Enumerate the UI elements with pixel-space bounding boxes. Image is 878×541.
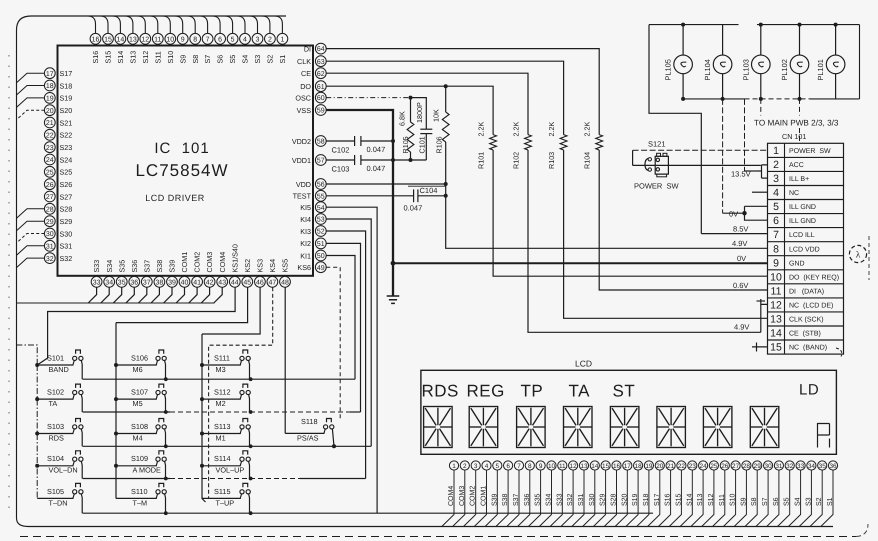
svg-text:VDD2: VDD2 <box>292 137 311 146</box>
svg-text:C101: C101 <box>418 136 427 153</box>
wire/net OSC: pin60 to R105/C101 top <box>326 97 410 99</box>
pin 21 (S21) <box>44 117 55 128</box>
wire <box>648 470 660 526</box>
svg-text:9: 9 <box>773 257 779 269</box>
CN101 bottom-right dashed hook <box>836 348 842 357</box>
wire hook pin 42 <box>201 287 209 303</box>
capacitor C101 1800P <box>411 98 427 130</box>
svg-text:8: 8 <box>193 36 197 43</box>
svg-text:7: 7 <box>773 229 779 241</box>
LCD pin 23 (S14) <box>688 461 697 470</box>
pin 55 (TEST) <box>315 190 326 201</box>
wire/net VSS (thick ground) <box>326 110 393 296</box>
wire: pin48 KS5 down to S118 <box>284 287 286 433</box>
wire hook pin 37 <box>138 287 146 303</box>
svg-text:10K: 10K <box>432 109 441 122</box>
pin 33 (S33) <box>91 276 102 287</box>
LCD pin 14 (S30) <box>590 461 599 470</box>
svg-text:NC: NC <box>789 190 799 197</box>
svg-text:S21: S21 <box>60 118 73 127</box>
wire: thick GND to CN101 pin 9 (0V) <box>393 262 768 264</box>
wire bus under IC bottom <box>17 302 215 304</box>
svg-text:S115: S115 <box>214 487 231 496</box>
LCD pin 24 (S13) <box>699 461 708 470</box>
wire hook pin 35 <box>113 287 121 303</box>
svg-text:S17: S17 <box>654 493 661 506</box>
switch S109 A MODE <box>116 465 157 467</box>
LCD small segment figure (right) <box>818 423 830 448</box>
pin 29 (S29) <box>44 216 55 227</box>
svg-text:VOL–DN: VOL–DN <box>49 466 78 475</box>
svg-text:5: 5 <box>231 36 235 43</box>
svg-text:S33: S33 <box>92 260 101 273</box>
wire <box>799 470 811 526</box>
svg-text:3: 3 <box>773 173 779 185</box>
svg-text:32: 32 <box>786 463 794 470</box>
NC tick pin12 + bracket to pin14 <box>761 299 768 332</box>
svg-text:COM4: COM4 <box>448 486 455 506</box>
LCD 14-segment character 1 <box>424 407 453 448</box>
svg-text:S30: S30 <box>589 493 596 506</box>
wire hook pin 39 <box>164 287 172 303</box>
svg-text:31: 31 <box>46 243 54 250</box>
wire <box>745 470 757 526</box>
svg-text:VDD: VDD <box>296 180 311 189</box>
svg-text:S4: S4 <box>795 497 802 506</box>
switch S104 VOL&#8211;DN <box>37 465 73 467</box>
LCD pin 1 (COM4) <box>449 461 458 470</box>
switch S113 M1 <box>202 433 241 435</box>
svg-text:DI: DI <box>304 44 311 53</box>
svg-text:13.5V: 13.5V <box>731 170 751 179</box>
svg-text:TO MAIN PWB 2/3, 3/3: TO MAIN PWB 2/3, 3/3 <box>754 119 839 128</box>
svg-text:45: 45 <box>243 279 251 286</box>
svg-text:S5: S5 <box>784 497 791 506</box>
svg-text:LCD: LCD <box>575 359 592 369</box>
LCD pin 20 (S17) <box>655 461 664 470</box>
svg-text:S11: S11 <box>719 494 726 506</box>
wire row4 line (partly dashed) <box>83 478 171 480</box>
svg-text:S3: S3 <box>253 55 262 64</box>
svg-text:KS3: KS3 <box>256 259 265 273</box>
svg-text:39: 39 <box>168 279 176 286</box>
pin 1 (S1) <box>277 33 288 44</box>
svg-text:12: 12 <box>141 36 149 43</box>
svg-text:24: 24 <box>700 463 708 470</box>
svg-text:S34: S34 <box>105 260 114 273</box>
svg-text:12: 12 <box>770 300 782 312</box>
off-page connector circled 1 <box>849 245 866 262</box>
LCD pin 7 (S37) <box>514 461 523 470</box>
switch S110 T&#8211;M <box>116 497 157 499</box>
svg-text:S17: S17 <box>60 69 73 78</box>
svg-text:LCD VDD: LCD VDD <box>789 246 820 253</box>
LCD pin 21 (S16) <box>666 461 675 470</box>
svg-text:34: 34 <box>808 463 816 470</box>
svg-text:26: 26 <box>46 182 54 189</box>
svg-text:S35: S35 <box>117 260 126 273</box>
pin 3 (S3) <box>252 33 263 44</box>
LCD pin 29 (S8) <box>753 461 762 470</box>
wire <box>485 470 497 526</box>
wire hook pin 34 <box>101 287 109 303</box>
wire <box>767 470 779 526</box>
LCD pin 5 (S39) <box>493 461 502 470</box>
svg-text:S27: S27 <box>60 192 73 201</box>
svg-text:30: 30 <box>46 231 54 238</box>
LCD pin 16 (S28) <box>612 461 621 470</box>
svg-text:PL102: PL102 <box>780 59 789 80</box>
lamp top bus wire <box>649 24 739 26</box>
svg-text:33: 33 <box>797 463 805 470</box>
LCD pin 34 (S3) <box>807 461 816 470</box>
svg-text:23: 23 <box>46 145 54 152</box>
pin 51 (KI2) <box>315 238 326 249</box>
svg-text:S110: S110 <box>131 487 148 496</box>
wire <box>518 470 530 526</box>
svg-text:R106: R106 <box>435 136 444 153</box>
wire <box>474 470 486 526</box>
resistor R103 2.2K <box>560 135 567 150</box>
switch S118 PS/AS <box>285 432 324 434</box>
svg-text:S23: S23 <box>60 143 73 152</box>
wire: 13.5V feed to pins 2,3 <box>744 99 746 171</box>
wire: 8.5V to CN101 pin 7 LCD ILL <box>701 233 767 235</box>
svg-text:S9: S9 <box>740 497 747 506</box>
svg-text:35: 35 <box>819 463 827 470</box>
wire: S121 to CN101 pin2 ACC <box>633 164 761 166</box>
svg-text:TP: TP <box>521 382 544 401</box>
capacitor C103 0.047 <box>354 155 356 165</box>
switch S103 RDS <box>37 433 73 435</box>
svg-text:S6: S6 <box>773 497 780 506</box>
svg-text:S20: S20 <box>621 493 628 506</box>
wire hook pin 41 <box>189 287 197 303</box>
svg-text:KI5: KI5 <box>300 203 311 212</box>
pin 57 (VDD1) <box>315 155 326 166</box>
svg-text:S15: S15 <box>675 493 682 506</box>
svg-text:LCD ILL: LCD ILL <box>789 232 815 239</box>
svg-text:1: 1 <box>773 145 779 157</box>
svg-text:M2: M2 <box>216 399 226 408</box>
svg-text:33: 33 <box>93 279 101 286</box>
LCD pin 13 (S31) <box>579 461 588 470</box>
svg-text:TEST: TEST <box>293 192 312 201</box>
pin 61 (DO) <box>315 81 326 92</box>
svg-text:6: 6 <box>773 215 779 227</box>
wire/net CLK: pin63 to R103 then CN101 pin 13 <box>326 61 563 134</box>
svg-text:41: 41 <box>193 279 201 286</box>
lamp PL104 <box>722 25 724 55</box>
svg-text:6: 6 <box>218 36 222 43</box>
pin 5 (S5) <box>227 33 238 44</box>
pin 60 (OSC) <box>315 92 326 103</box>
pin 52 (KI3) <box>315 226 326 237</box>
svg-text:S15: S15 <box>104 51 113 64</box>
svg-text:57: 57 <box>317 158 325 165</box>
svg-text:S8: S8 <box>751 497 758 506</box>
LCD pin 22 (S15) <box>677 461 686 470</box>
wire: PL104 drop to ILL GND 0V <box>722 99 724 213</box>
svg-text:10: 10 <box>548 463 556 470</box>
svg-text:ILL GND: ILL GND <box>789 204 816 211</box>
wire <box>669 470 681 526</box>
wire <box>680 470 692 526</box>
svg-text:8: 8 <box>528 463 532 470</box>
wire row3 line <box>83 445 372 447</box>
svg-text:S26: S26 <box>60 180 73 189</box>
wire <box>691 470 703 526</box>
resistor R106 10K <box>445 86 447 112</box>
svg-text:25: 25 <box>710 463 718 470</box>
svg-text:6.8K: 6.8K <box>398 111 407 126</box>
wire: OSC bottom rail to VDD1 line <box>393 159 426 161</box>
svg-text:S113: S113 <box>214 422 231 431</box>
capacitor C102 0.047 <box>354 136 356 146</box>
svg-text:59: 59 <box>317 108 325 115</box>
svg-text:LD: LD <box>799 382 819 399</box>
svg-text:S38: S38 <box>155 260 164 273</box>
pin 47 (KS4) <box>267 276 278 287</box>
svg-text:22: 22 <box>678 463 686 470</box>
wire <box>778 470 790 526</box>
connector CN101 table <box>768 143 844 354</box>
wire/net CE: pin62 to R102 then CN101 pin 14 <box>326 73 528 134</box>
svg-text:S25: S25 <box>60 168 73 177</box>
pin 10 (S10) <box>165 33 176 44</box>
wire <box>723 470 735 526</box>
svg-text:S3: S3 <box>805 497 812 506</box>
svg-text:POWER SW: POWER SW <box>634 182 680 191</box>
pin 43 (COM4) <box>217 276 228 287</box>
wire <box>539 470 551 526</box>
junction col2 row2 <box>164 410 168 414</box>
wire: PL102 drop to CN101 top <box>799 99 801 116</box>
wire <box>604 470 616 526</box>
svg-text:S37: S37 <box>513 493 520 506</box>
LCD pin 36 (S1) <box>828 461 837 470</box>
svg-text:ACC: ACC <box>789 162 804 169</box>
junction col2 row3 <box>164 444 168 448</box>
svg-text:C103: C103 <box>332 165 350 174</box>
wire: S121 to CN101 pin1 (dashed) <box>633 149 768 151</box>
svg-text:47: 47 <box>269 279 277 286</box>
svg-text:21: 21 <box>46 120 54 127</box>
LCD 14-segment character 3 <box>517 407 546 448</box>
svg-text:54: 54 <box>317 205 325 212</box>
pin 62 (CE) <box>315 68 326 79</box>
svg-text:COM3: COM3 <box>205 252 214 273</box>
wire <box>507 470 519 526</box>
svg-text:16: 16 <box>613 463 621 470</box>
LCD pin 3 (COM2) <box>471 461 480 470</box>
pin 2 (S2) <box>265 33 276 44</box>
svg-text:CN 101: CN 101 <box>782 132 806 141</box>
LCD 14-segment character 7 <box>703 407 732 448</box>
svg-text:5: 5 <box>496 463 500 470</box>
junction col2 row5 <box>164 511 168 515</box>
svg-text:9: 9 <box>539 463 543 470</box>
wire <box>593 470 605 526</box>
svg-text:S16: S16 <box>665 493 672 506</box>
svg-text:1: 1 <box>452 463 456 470</box>
svg-text:λ: λ <box>856 250 861 260</box>
switch S111 M3 <box>202 364 241 366</box>
svg-text:KS6: KS6 <box>297 263 311 272</box>
svg-text:S10: S10 <box>166 51 175 64</box>
svg-text:S11: S11 <box>153 51 162 63</box>
pin 31 (S31) <box>44 240 55 251</box>
wire column3 bus <box>202 334 206 502</box>
svg-text:C104: C104 <box>420 186 438 195</box>
svg-text:0V: 0V <box>737 254 746 263</box>
svg-text:62: 62 <box>317 71 325 78</box>
pin 17 (S17) <box>44 68 55 79</box>
svg-text:A MODE: A MODE <box>133 466 162 475</box>
svg-text:S33: S33 <box>556 493 563 506</box>
svg-text:COM1: COM1 <box>180 252 189 273</box>
resistor R105 6.8K <box>410 98 412 122</box>
svg-text:0.047: 0.047 <box>367 145 386 154</box>
svg-text:13: 13 <box>580 463 588 470</box>
switch S108 M4 <box>116 433 157 435</box>
LCD pin 35 (S2) <box>818 461 827 470</box>
svg-text:S37: S37 <box>142 260 151 273</box>
svg-text:TA: TA <box>569 382 591 401</box>
svg-text:COM2: COM2 <box>470 486 477 506</box>
svg-text:19: 19 <box>46 96 54 103</box>
LCD pin 19 (S18) <box>644 461 653 470</box>
svg-text:2.2K: 2.2K <box>477 122 486 137</box>
LCD pin 27 (S10) <box>731 461 740 470</box>
wire: pin47 KS4 (dashed) to aux column <box>209 287 273 498</box>
svg-text:36: 36 <box>130 279 138 286</box>
svg-text:S2: S2 <box>816 497 823 506</box>
LCD pin 12 (S32) <box>569 461 578 470</box>
pin 14 (S14) <box>115 33 126 44</box>
svg-text:S12: S12 <box>708 493 715 506</box>
svg-text:40: 40 <box>181 279 189 286</box>
svg-text:8: 8 <box>773 243 779 255</box>
wire KI2 to key matrix row <box>326 243 360 412</box>
svg-text:2.2K: 2.2K <box>512 122 521 137</box>
pin 46 (KS3) <box>255 276 266 287</box>
LCD pin 32 (S5) <box>785 461 794 470</box>
wire <box>626 470 638 526</box>
svg-text:2: 2 <box>268 36 272 43</box>
wire <box>756 470 768 526</box>
pin 11 (S11) <box>152 33 163 44</box>
svg-text:PL101: PL101 <box>816 59 825 80</box>
svg-text:R102: R102 <box>512 152 521 169</box>
lamp PL101 <box>835 25 837 55</box>
svg-text:7: 7 <box>517 463 521 470</box>
pin 39 (S39) <box>167 276 178 287</box>
svg-text:ILL B+: ILL B+ <box>789 176 809 183</box>
wire hook pin 38 <box>151 287 159 303</box>
wire KI4 to key matrix row <box>326 219 371 446</box>
svg-text:4: 4 <box>773 187 779 199</box>
wire row2 line (partly dashed) <box>83 411 171 413</box>
svg-text:55: 55 <box>317 193 325 200</box>
svg-text:T–M: T–M <box>133 498 148 507</box>
pin 59 (VSS) <box>315 105 326 116</box>
svg-text:63: 63 <box>317 59 325 66</box>
capacitor C104 0.047 on TEST line <box>326 195 413 197</box>
svg-text:T–DN: T–DN <box>49 498 68 507</box>
svg-text:S28: S28 <box>611 493 618 506</box>
pin 25 (S25) <box>44 166 55 177</box>
svg-text:M3: M3 <box>216 365 226 374</box>
switch S101 BAND <box>37 364 73 366</box>
svg-text:ST: ST <box>613 382 636 401</box>
svg-text:14: 14 <box>770 328 782 340</box>
svg-text:2.2K: 2.2K <box>547 122 556 137</box>
svg-text:S19: S19 <box>632 493 639 506</box>
svg-text:S13: S13 <box>697 493 704 506</box>
svg-text:TA: TA <box>49 399 58 408</box>
svg-text:18: 18 <box>46 83 54 90</box>
wire <box>464 470 476 526</box>
svg-text:58: 58 <box>317 139 325 146</box>
pin 50 (KI1) <box>315 250 326 261</box>
svg-text:KI4: KI4 <box>300 215 311 224</box>
svg-text:29: 29 <box>46 219 54 226</box>
wire <box>528 470 540 526</box>
LCD pin 30 (S7) <box>764 461 773 470</box>
LCD 14-segment character 4 <box>564 407 593 448</box>
wire hook pin 36 <box>126 287 134 303</box>
svg-text:37: 37 <box>143 279 151 286</box>
wire: top segment bus (IC top pins return) <box>17 16 287 30</box>
svg-text:DO: DO <box>300 82 311 91</box>
pin 41 (COM2) <box>192 276 203 287</box>
switch S107 M5 <box>116 398 157 400</box>
outer dashed page border (faint, partial) <box>8 55 10 515</box>
svg-text:CLK (SCK): CLK (SCK) <box>789 316 824 324</box>
LCD pin 33 (S4) <box>796 461 805 470</box>
svg-text:50: 50 <box>317 253 325 260</box>
svg-text:PL105: PL105 <box>664 59 673 80</box>
svg-text:10: 10 <box>166 36 174 43</box>
junction col3 row2 <box>249 410 253 414</box>
pin 26 (S26) <box>44 179 55 190</box>
wire <box>637 470 649 526</box>
wire <box>658 470 670 526</box>
svg-text:IC 101: IC 101 <box>154 140 209 157</box>
pin 45 (KS2) <box>242 276 253 287</box>
LCD pin 26 (S11) <box>720 461 729 470</box>
svg-text:S9: S9 <box>178 55 187 64</box>
svg-text:S104: S104 <box>47 454 64 463</box>
svg-text:38: 38 <box>156 279 164 286</box>
LCD pin 17 (S20) <box>623 461 632 470</box>
pin 49 (KS6) <box>315 262 326 273</box>
wire <box>496 470 508 526</box>
svg-text:48: 48 <box>281 279 289 286</box>
svg-text:BAND: BAND <box>49 365 69 374</box>
svg-text:64: 64 <box>317 46 325 53</box>
svg-text:60: 60 <box>317 95 325 102</box>
svg-text:23: 23 <box>689 463 697 470</box>
svg-text:S32: S32 <box>60 254 73 263</box>
svg-text:S1: S1 <box>278 55 287 64</box>
pin 22 (S22) <box>44 129 55 140</box>
svg-text:LC75854W: LC75854W <box>135 161 228 180</box>
svg-text:1800P: 1800P <box>415 102 424 123</box>
svg-text:46: 46 <box>256 279 264 286</box>
LCD pin 15 (S29) <box>601 461 610 470</box>
